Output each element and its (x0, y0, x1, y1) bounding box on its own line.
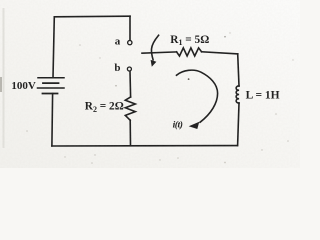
paper grain overlay (0, 0, 300, 168)
switch arc a-to-b (151, 35, 158, 60)
wire right lower (238, 103, 239, 146)
wire left upper (53, 17, 54, 78)
scan speck near b (115, 85, 117, 87)
scan mark left edge (0, 77, 2, 92)
resistor R1 zigzag (177, 48, 202, 56)
wire left lower (51, 94, 54, 147)
wire R1 to right corner (202, 52, 238, 54)
scan streak left edge (3, 8, 5, 148)
inductor L coil (236, 86, 239, 103)
wire top (54, 15, 130, 18)
wire switch to R1 (142, 52, 177, 53)
battery 100V source plates (38, 78, 65, 94)
scan speck bottom (94, 154, 95, 155)
scan speck bottom right (261, 149, 262, 150)
wire right upper (238, 54, 239, 86)
node a terminal circle (128, 40, 132, 44)
wire stub below node b (129, 71, 132, 97)
resistor R2 zigzag (125, 97, 135, 120)
node b terminal circle (127, 67, 131, 71)
wire R2 to bottom (129, 120, 131, 146)
current arrowhead (189, 122, 200, 129)
wire stub to node a (129, 16, 131, 40)
scan speck near R1 label (224, 36, 226, 38)
scan speck cluster (26, 32, 293, 164)
wire bottom (52, 145, 238, 147)
switch arrowhead (151, 60, 157, 67)
scan speck inside loop (188, 78, 190, 80)
current i(t) loop arrow (177, 70, 218, 122)
